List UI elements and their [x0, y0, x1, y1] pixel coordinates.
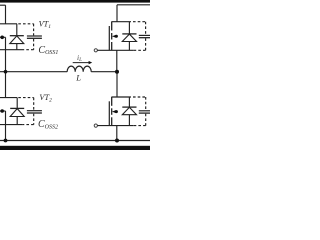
- svg-text:L: L: [75, 72, 81, 82]
